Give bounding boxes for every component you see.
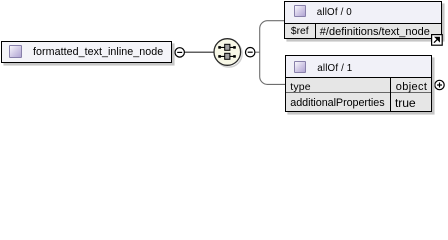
allOf/1 box	[285, 55, 433, 112]
link arrow icon	[431, 34, 443, 46]
expand toggle (plus)	[435, 80, 444, 89]
wire layer SVG	[0, 0, 448, 121]
node label	[33, 46, 163, 58]
additionalProperties row	[286, 93, 432, 111]
$ref cell divider	[315, 24, 316, 40]
node box formatted_text_inline_node	[1, 41, 172, 63]
allOf/1 header icon	[294, 61, 306, 73]
type cell divider	[390, 78, 391, 93]
$ref row	[285, 23, 441, 39]
type name	[290, 81, 310, 93]
$ref name	[291, 26, 309, 37]
allOf/0 header label	[317, 7, 352, 18]
additionalProperties name	[290, 97, 384, 109]
allOf/1 header label	[317, 63, 352, 74]
additionalProperties value	[395, 96, 416, 110]
$ref value	[320, 26, 430, 38]
allOf/0 header icon	[294, 5, 306, 17]
combinator circle shadow	[216, 41, 243, 68]
allOf/0 box	[284, 1, 442, 39]
wire branch trunk to allOf/0 and allOf/1	[260, 21, 286, 85]
collapse toggle (minus) right	[246, 48, 255, 57]
combinator circle (allOf)	[214, 39, 241, 66]
node icon	[9, 45, 22, 58]
type row	[286, 77, 432, 93]
wire from node to allOf combinator	[185, 51, 214, 53]
type value	[396, 81, 427, 93]
wire from combinator toggle to branch trunk	[255, 51, 259, 53]
additionalProperties cell divider	[390, 93, 391, 111]
collapse toggle (minus) left	[175, 48, 184, 57]
